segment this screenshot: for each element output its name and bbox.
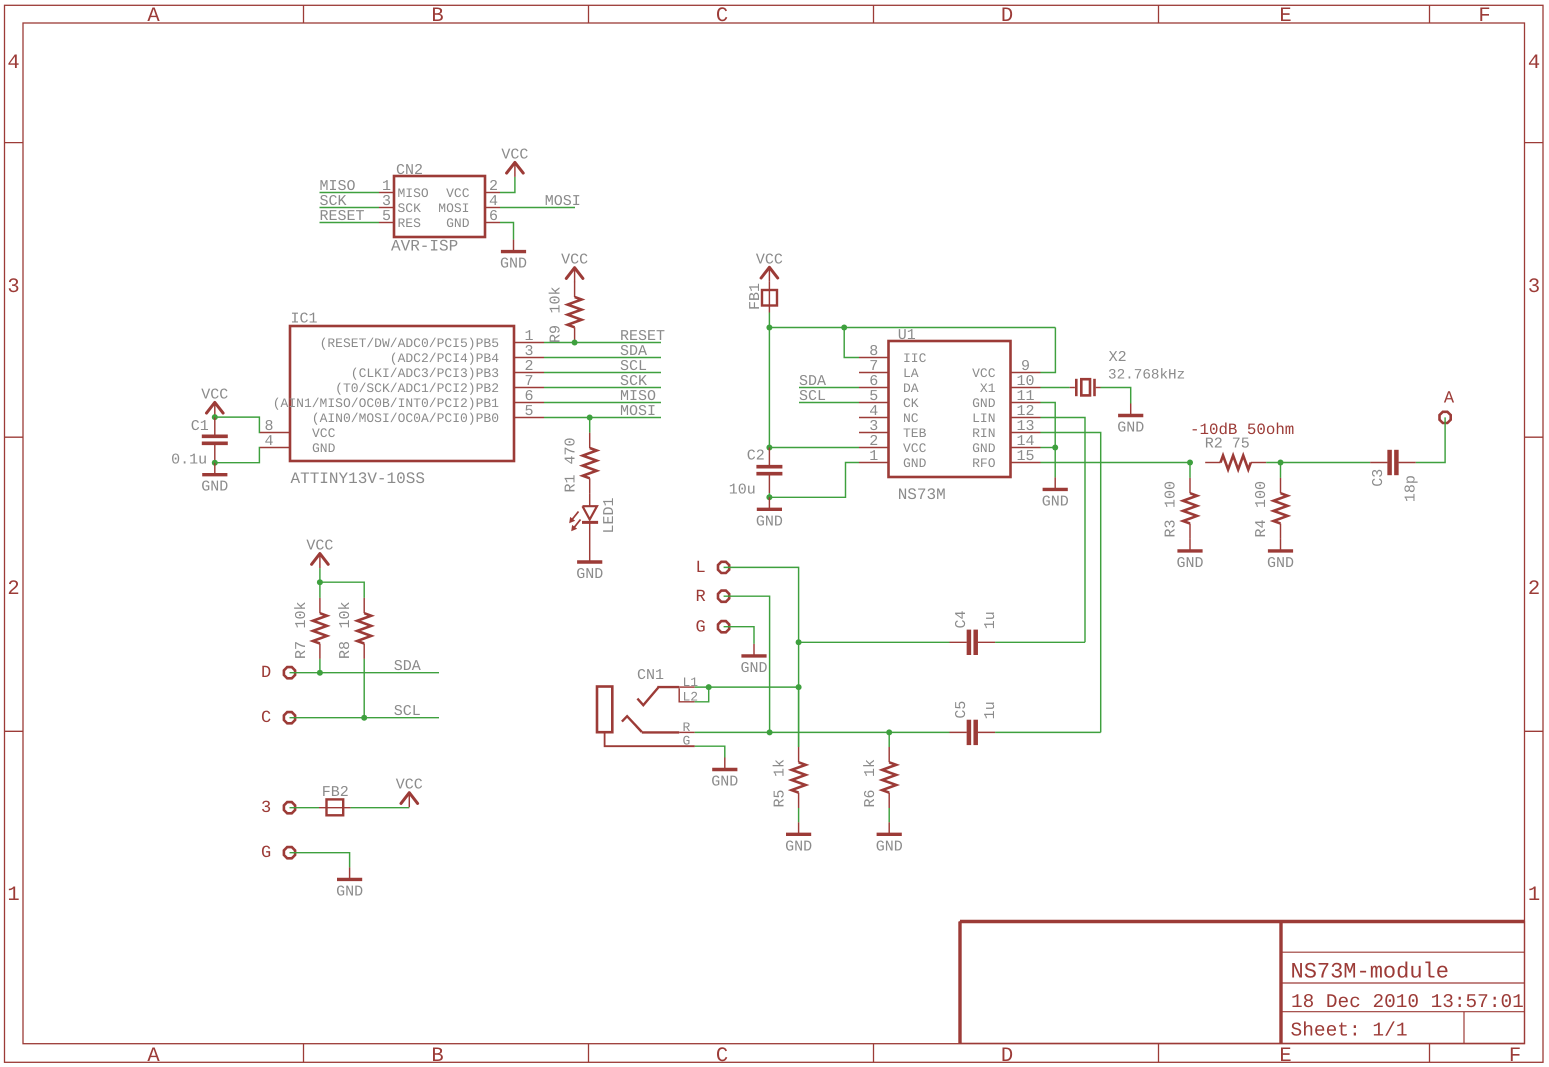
svg-text:G: G — [683, 734, 691, 749]
crystal X2 32.768kHz — [1070, 387, 1075, 389]
wire SCL to U1 pin 5 — [799, 402, 859, 404]
svg-text:E: E — [1279, 1045, 1291, 1067]
wire R7 to SDA — [319, 659, 321, 673]
antenna pad A — [1440, 412, 1451, 423]
svg-text:U1: U1 — [898, 327, 916, 344]
wire U1 pin 15 RFO — [1041, 462, 1191, 464]
svg-text:RIN: RIN — [972, 426, 995, 441]
wire L2 to L1 junction — [695, 687, 709, 702]
IC1 pin 3 PB4 — [514, 357, 544, 359]
svg-text:R3: R3 — [1163, 519, 1180, 537]
svg-text:1: 1 — [869, 448, 878, 465]
IC IC1 ATTINY13V-10SS — [290, 326, 514, 461]
svg-text:G: G — [696, 619, 706, 638]
ferrite bead FB2 — [319, 807, 351, 809]
wire CN2 pin 6 to GND — [500, 223, 514, 240]
svg-text:C1: C1 — [191, 418, 209, 435]
wire GND net down — [1054, 448, 1056, 478]
capacitor C2 10u — [768, 448, 770, 466]
resistor R1 470 — [589, 433, 591, 448]
U1 pin 2 VCC — [859, 447, 889, 449]
junction C1 top — [212, 414, 218, 420]
svg-text:NS73M: NS73M — [898, 486, 946, 504]
svg-text:B: B — [431, 1045, 443, 1067]
junction SCL R8 — [361, 715, 367, 721]
svg-text:R5: R5 — [772, 789, 789, 807]
pad D — [284, 667, 295, 678]
svg-text:1k: 1k — [862, 759, 879, 777]
svg-text:C: C — [261, 709, 271, 728]
svg-text:0.1u: 0.1u — [171, 451, 207, 468]
svg-text:6: 6 — [489, 208, 498, 225]
power VCC at FB2 — [408, 792, 410, 808]
ferrite bead FB1 — [768, 282, 770, 313]
IC1 pin 8 VCC — [260, 432, 290, 434]
svg-text:VCC: VCC — [561, 252, 588, 269]
pad L — [718, 562, 729, 573]
svg-text:R1: R1 — [563, 474, 580, 492]
wire CN2 pin 4 MOSI — [500, 207, 575, 209]
ground below LED1 — [589, 550, 591, 562]
svg-text:GND: GND — [1176, 555, 1203, 572]
resistor R2 75 — [1205, 462, 1220, 464]
U1 pin 12 LIN — [1011, 417, 1041, 419]
junction R1-MOSI — [587, 415, 593, 421]
svg-text:1: 1 — [1528, 884, 1540, 907]
ground at X2 — [1130, 404, 1132, 416]
wire net RESET — [544, 342, 661, 344]
wire VCC to R7 R8 — [319, 568, 321, 582]
wire C2 bottom — [768, 493, 770, 497]
svg-text:GND: GND — [1042, 493, 1069, 510]
svg-text:MOSI: MOSI — [545, 193, 581, 210]
svg-text:GND: GND — [446, 216, 470, 231]
IC1 pin 1 PB5 — [514, 342, 544, 344]
svg-text:IIC: IIC — [903, 351, 927, 366]
power VCC above R7 R8 — [319, 553, 321, 569]
resistor R7 10k — [319, 582, 321, 598]
power VCC at C1 — [214, 401, 216, 417]
wire jack G to GND — [695, 746, 725, 757]
wire C3 to antenna pad — [1416, 417, 1445, 462]
svg-text:GND: GND — [336, 883, 363, 900]
svg-text:(T0/SCK/ADC1/PCI2)PB2: (T0/SCK/ADC1/PCI2)PB2 — [335, 381, 499, 396]
svg-text:GND: GND — [903, 456, 927, 471]
power VCC at CN2 pin 2 — [514, 161, 516, 177]
wire MOSI to R1 — [589, 418, 591, 433]
svg-text:R2 75: R2 75 — [1205, 436, 1250, 453]
U1 pin 13 RIN — [1011, 432, 1041, 434]
svg-text:GND: GND — [1117, 420, 1144, 437]
svg-text:10u: 10u — [729, 482, 756, 499]
junction L net at C4 — [796, 639, 802, 645]
resistor R4 100 — [1280, 463, 1282, 478]
wire C1 top to IC1 pin 8 — [215, 417, 260, 432]
wire L1 net — [695, 686, 799, 688]
svg-text:FB1: FB1 — [747, 283, 764, 310]
svg-text:Sheet: 1/1: Sheet: 1/1 — [1291, 1020, 1408, 1042]
resistor R8 10k — [363, 598, 365, 613]
svg-text:GND: GND — [1267, 555, 1294, 572]
svg-text:MOSI: MOSI — [438, 201, 469, 216]
svg-text:RES: RES — [398, 216, 422, 231]
wire SDA to U1 pin 6 — [799, 387, 859, 389]
resistor R5 1k — [798, 687, 800, 747]
junction R9-RESET — [572, 340, 578, 346]
svg-text:D: D — [261, 664, 271, 683]
IC1 pin 6 PB1 — [514, 402, 544, 404]
svg-text:A: A — [1444, 390, 1455, 409]
wire U1 pin 12 LIN — [1041, 418, 1086, 643]
junction SDA R7 — [317, 670, 323, 676]
wire net SCK — [544, 387, 661, 389]
wire R6 to GND — [888, 808, 890, 822]
svg-text:RFO: RFO — [972, 456, 996, 471]
U1 pin 1 GND — [859, 462, 889, 464]
svg-text:R4: R4 — [1253, 519, 1270, 537]
junction at C2 top — [766, 445, 772, 451]
svg-text:1u: 1u — [982, 701, 999, 719]
wire pad G to GND — [724, 627, 754, 644]
svg-text:VCC: VCC — [501, 146, 528, 163]
CN1 sleeve contact G — [605, 732, 695, 746]
svg-text:SDA: SDA — [394, 658, 421, 675]
capacitor C5 1u — [950, 731, 967, 733]
IC1 pin 7 PB2 — [514, 387, 544, 389]
svg-text:IC1: IC1 — [291, 311, 318, 328]
pad G audio — [718, 621, 729, 632]
CN2 pin 6 — [485, 222, 500, 224]
svg-text:LA: LA — [903, 366, 919, 381]
svg-text:4: 4 — [7, 52, 19, 75]
svg-text:C2: C2 — [747, 448, 765, 465]
wire VCC rail to U1 pin 2 — [769, 447, 859, 449]
pad R — [718, 591, 729, 602]
svg-text:R8: R8 — [337, 641, 354, 659]
svg-text:CN2: CN2 — [396, 162, 423, 179]
svg-text:1: 1 — [7, 884, 19, 907]
svg-text:CN1: CN1 — [637, 667, 664, 684]
svg-text:L: L — [696, 559, 706, 578]
wire R8 to SCL — [363, 659, 365, 718]
svg-text:GND: GND — [876, 838, 903, 855]
ground below R5 — [798, 822, 800, 834]
svg-text:R7: R7 — [293, 641, 310, 659]
svg-text:NS73M-module: NS73M-module — [1291, 960, 1449, 985]
connector CN2 AVR-ISP — [394, 176, 485, 237]
svg-text:C3: C3 — [1370, 469, 1387, 487]
ground below U1 — [1054, 477, 1056, 489]
wire net SCL — [544, 372, 661, 374]
svg-text:1u: 1u — [982, 611, 999, 629]
capacitor C4 1u — [950, 641, 967, 643]
wire R net — [695, 731, 950, 733]
junction C2 bottom GND — [766, 494, 772, 500]
junction VCC R7 — [317, 579, 323, 585]
svg-text:GND: GND — [740, 660, 767, 677]
junction VCC rail at U1 pin 8 branch — [841, 325, 847, 331]
svg-text:10k: 10k — [337, 601, 354, 628]
svg-text:X1: X1 — [980, 381, 996, 396]
svg-text:R6: R6 — [862, 789, 879, 807]
ground at pad G digital — [349, 867, 351, 879]
svg-text:A: A — [147, 5, 160, 28]
svg-text:10k: 10k — [548, 286, 565, 313]
wire L net to C4 — [799, 641, 950, 643]
wire SDA from pad D — [290, 672, 440, 674]
ground below C2 — [768, 497, 770, 509]
svg-text:F: F — [1478, 5, 1490, 28]
CN2 pin 2 — [485, 192, 500, 194]
wire to U1 pin 9 — [1041, 328, 1056, 373]
svg-text:C: C — [716, 1045, 728, 1067]
svg-text:GND: GND — [756, 513, 783, 530]
svg-text:FB2: FB2 — [322, 784, 349, 801]
svg-text:MISO: MISO — [398, 186, 429, 201]
wire U1 pin 10 to X2 — [1041, 387, 1070, 389]
svg-text:5: 5 — [524, 403, 533, 420]
U1 pin 9 VCC — [1011, 372, 1041, 374]
title block — [960, 922, 1525, 1044]
svg-text:1k: 1k — [772, 759, 789, 777]
U1 pin 3 TEB — [859, 432, 889, 434]
CN2 pin 1 — [379, 192, 394, 194]
svg-text:(RESET/DW/ADC0/PCI5)PB5: (RESET/DW/ADC0/PCI5)PB5 — [320, 336, 499, 351]
svg-text:VCC: VCC — [972, 366, 996, 381]
svg-text:LIN: LIN — [972, 411, 995, 426]
wire pad R down to R net — [724, 596, 770, 732]
svg-text:10k: 10k — [293, 601, 310, 628]
svg-text:RESET: RESET — [320, 208, 365, 225]
svg-text:VCC: VCC — [312, 426, 336, 441]
svg-text:VCC: VCC — [903, 441, 927, 456]
svg-text:B: B — [431, 5, 443, 28]
svg-text:GND: GND — [972, 441, 996, 456]
svg-text:4: 4 — [264, 433, 273, 450]
ground below R4 — [1280, 539, 1282, 551]
wire C1 bottom to IC1 pin 4 — [215, 448, 260, 463]
junction R net at pad R vertical — [767, 729, 773, 735]
junction at R4 — [1278, 460, 1284, 466]
wire pad G to GND — [290, 853, 350, 868]
svg-text:100: 100 — [1253, 481, 1270, 508]
wire U1 pin 11 to GND net — [1041, 403, 1056, 448]
pad 3 — [284, 802, 295, 813]
wire R2 to C3 — [1266, 462, 1370, 464]
ground at CN2 pin 6 — [513, 240, 515, 252]
wire R1 to LED1 — [589, 494, 591, 507]
U1 pin 15 RFO — [1011, 462, 1041, 464]
junction C1 bottom — [212, 460, 218, 466]
svg-text:5: 5 — [382, 208, 391, 225]
ground below C1 — [214, 463, 216, 475]
svg-text:GND: GND — [500, 256, 527, 273]
svg-text:GND: GND — [201, 479, 228, 496]
svg-text:CK: CK — [903, 396, 919, 411]
svg-text:4: 4 — [1528, 52, 1540, 75]
svg-text:470: 470 — [563, 437, 580, 464]
IC1 pin 5 PB0 — [514, 417, 544, 419]
junction VCC rail left — [766, 325, 772, 331]
U1 pin 7 LA — [859, 372, 889, 374]
wire SCK to CN2 pin 3 — [320, 207, 380, 209]
pad G digital — [284, 847, 295, 858]
IC1 pin 4 GND — [260, 447, 290, 449]
wire C4 to LIN — [995, 641, 1085, 643]
svg-text:VCC: VCC — [306, 538, 333, 555]
IC1 pin 2 PB3 — [514, 372, 544, 374]
svg-text:C5: C5 — [953, 701, 970, 719]
LED LED1 — [583, 506, 598, 519]
svg-text:ATTINY13V-10SS: ATTINY13V-10SS — [291, 470, 425, 488]
svg-text:SCL: SCL — [799, 388, 826, 405]
wire U1 pin 14 to GND net — [1041, 447, 1056, 449]
wire FB2 to VCC — [351, 807, 410, 809]
wire net SDA — [544, 357, 661, 359]
svg-text:R: R — [696, 588, 706, 607]
svg-text:R9: R9 — [548, 325, 565, 343]
U1 pin 11 GND — [1011, 402, 1041, 404]
wire net MOSI — [544, 417, 661, 419]
svg-text:TEB: TEB — [903, 426, 927, 441]
svg-text:GND: GND — [312, 441, 336, 456]
svg-text:D: D — [1001, 1045, 1013, 1067]
CN1 tip contact L1 — [637, 688, 658, 706]
svg-text:VCC: VCC — [396, 777, 423, 794]
wire SCL from pad C — [290, 717, 440, 719]
junction L1-L2 — [706, 684, 712, 690]
wire MISO to CN2 pin 1 — [320, 192, 380, 194]
svg-text:MOSI: MOSI — [620, 403, 656, 420]
IC U1 NS73M — [889, 341, 1011, 477]
wire X2 to GND — [1101, 388, 1131, 404]
wire U1 pin 1 to GND net — [769, 463, 859, 498]
svg-text:15: 15 — [1016, 448, 1034, 465]
junction RFO at R3 — [1187, 460, 1193, 466]
U1 pin 10 X1 — [1011, 387, 1041, 389]
CN2 pin 4 — [485, 207, 500, 209]
U1 pin 6 DA — [859, 387, 889, 389]
resistor R9 10k — [574, 282, 576, 297]
junction L net at L1 — [796, 684, 802, 690]
svg-text:3: 3 — [7, 276, 19, 299]
svg-text:GND: GND — [785, 838, 812, 855]
svg-text:3: 3 — [261, 799, 271, 818]
svg-text:LED1: LED1 — [601, 497, 618, 533]
svg-text:18 Dec 2010 13:57:01: 18 Dec 2010 13:57:01 — [1291, 991, 1524, 1013]
capacitor C1 0.1u — [214, 417, 216, 435]
CN1 switch contact L2 — [679, 688, 695, 702]
U1 pin 14 GND — [1011, 447, 1041, 449]
wire pad L down to L net — [724, 567, 799, 747]
svg-text:2: 2 — [7, 578, 19, 601]
pad C — [284, 712, 295, 723]
svg-text:G: G — [261, 844, 271, 863]
svg-text:VCC: VCC — [201, 386, 228, 403]
svg-text:32.768kHz: 32.768kHz — [1108, 367, 1185, 383]
svg-text:F: F — [1509, 1045, 1521, 1067]
ground at jack G — [724, 758, 726, 770]
wire R5 to GND — [798, 808, 800, 822]
CN1 ring contact R — [622, 716, 642, 732]
ground at pad G — [753, 644, 755, 656]
ground below R3 — [1189, 539, 1191, 551]
svg-text:(AIN0/MOSI/OC0A/PCI0)PB0: (AIN0/MOSI/OC0A/PCI0)PB0 — [312, 411, 499, 426]
wire to U1 pin 8 — [844, 328, 859, 358]
wire CN2 pin 2 to VCC — [500, 177, 515, 193]
resistor R3 100 — [1189, 463, 1191, 478]
wire FB1 to VCC rail — [768, 313, 770, 448]
U1 pin 5 CK — [859, 402, 889, 404]
CN2 pin 5 — [379, 222, 394, 224]
wire U1 pin 13 RIN — [1041, 433, 1101, 733]
capacitor C3 18p — [1370, 462, 1387, 464]
power VCC above FB1 — [768, 266, 770, 282]
wire net MISO — [544, 402, 661, 404]
svg-text:NC: NC — [903, 411, 919, 426]
resistor R6 1k — [888, 732, 890, 747]
ground below R6 — [888, 822, 890, 834]
svg-text:GND: GND — [972, 396, 996, 411]
svg-text:(AIN1/MISO/OC0B/INT0/PCI2)PB1: (AIN1/MISO/OC0B/INT0/PCI2)PB1 — [273, 396, 499, 411]
U1 pin 8 IIC — [859, 357, 889, 359]
svg-text:SCK: SCK — [398, 201, 422, 216]
svg-text:VCC: VCC — [446, 186, 470, 201]
svg-text:SCL: SCL — [394, 703, 421, 720]
svg-text:100: 100 — [1163, 481, 1180, 508]
svg-text:X2: X2 — [1109, 349, 1127, 366]
junction R net at R6 — [886, 729, 892, 735]
U1 pin 4 NC — [859, 417, 889, 419]
svg-text:18p: 18p — [1403, 475, 1420, 502]
svg-text:DA: DA — [903, 381, 919, 396]
svg-text:C4: C4 — [953, 610, 970, 628]
svg-text:GND: GND — [711, 774, 738, 791]
svg-text:E: E — [1279, 5, 1291, 28]
svg-text:(ADC2/PCI4)PB4: (ADC2/PCI4)PB4 — [390, 351, 499, 366]
svg-text:C: C — [716, 5, 728, 28]
svg-text:3: 3 — [1528, 276, 1540, 299]
wire to R8 branch — [320, 582, 364, 598]
svg-text:(CLKI/ADC3/PCI3)PB3: (CLKI/ADC3/PCI3)PB3 — [351, 366, 499, 381]
svg-text:D: D — [1001, 5, 1013, 28]
power VCC above R9 — [574, 267, 576, 283]
wire RESET to CN2 pin 5 — [320, 222, 380, 224]
CN2 pin 3 — [379, 207, 394, 209]
wire C5 to RIN — [995, 731, 1101, 733]
svg-text:AVR-ISP: AVR-ISP — [391, 238, 458, 256]
svg-text:GND: GND — [576, 566, 603, 583]
wire VCC rail horizontal — [769, 327, 1055, 329]
svg-text:2: 2 — [1528, 578, 1540, 601]
svg-text:VCC: VCC — [756, 251, 783, 268]
svg-text:A: A — [147, 1045, 160, 1067]
wire pad 3 to FB2 — [290, 807, 320, 809]
junction U1 GND pins — [1052, 445, 1058, 451]
